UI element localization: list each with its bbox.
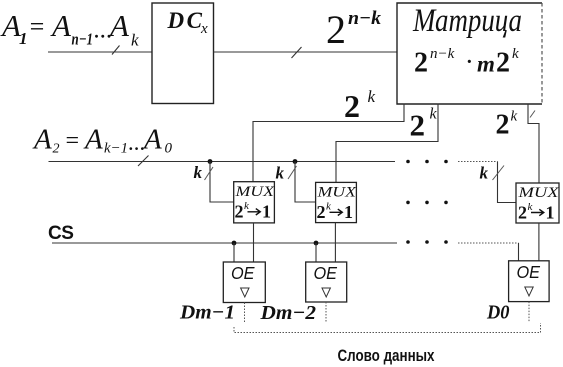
bus width label 2^(n-k) xyxy=(326,7,382,52)
bus slash on MUX3 input xyxy=(530,111,535,118)
svg-text:k: k xyxy=(276,164,285,183)
svg-text:A: A xyxy=(32,124,52,156)
svg-text:x: x xyxy=(200,21,208,37)
label 2^k (third) xyxy=(496,109,518,141)
slash k3 xyxy=(493,166,505,181)
svg-text:2: 2 xyxy=(496,110,510,141)
svg-text:Матрица: Матрица xyxy=(412,3,522,39)
svg-text:OE: OE xyxy=(314,263,338,283)
label 2^k (first) xyxy=(344,87,376,124)
svg-text:1: 1 xyxy=(546,203,555,223)
svg-text:2: 2 xyxy=(410,108,426,143)
svg-text:1: 1 xyxy=(344,202,353,222)
bus slash on A1 wire xyxy=(112,46,120,55)
svg-text:D0: D0 xyxy=(486,302,509,324)
wire 2^k bus Matrix to MUX3 xyxy=(528,104,539,183)
svg-text:CS: CS xyxy=(48,223,73,244)
bus slash on DC-Matrix wire xyxy=(292,47,302,58)
svg-text:OE: OE xyxy=(517,262,541,282)
svg-text:Слово данных: Слово данных xyxy=(338,346,435,365)
svg-text:2: 2 xyxy=(414,48,428,79)
ellipsis dots A2 row xyxy=(406,160,448,164)
svg-text:MUX: MUX xyxy=(517,185,559,201)
svg-text:k: k xyxy=(511,109,518,125)
svg-text:2: 2 xyxy=(235,202,244,222)
buffer OE2 xyxy=(306,262,347,302)
wire select to MUX3 xyxy=(498,162,517,203)
svg-text:k: k xyxy=(368,87,376,106)
wire D0 output dotted xyxy=(528,302,530,322)
svg-text:k−1: k−1 xyxy=(104,141,128,157)
svg-text:A: A xyxy=(50,8,72,43)
svg-text:n−k: n−k xyxy=(430,46,455,62)
svg-text:m: m xyxy=(477,52,495,77)
junction dot CS/OE1 xyxy=(232,241,237,246)
wire CS to OE3 enable xyxy=(518,243,520,261)
wire DC to Matrix xyxy=(214,51,398,53)
wire select to MUX1 xyxy=(210,162,234,203)
wire CS to OE1 enable xyxy=(233,243,235,262)
buffer OE1 xyxy=(223,262,265,303)
wire 2^k bus Matrix to MUX2 xyxy=(336,104,438,183)
svg-text:k: k xyxy=(480,164,489,183)
svg-text:n−1: n−1 xyxy=(72,30,94,49)
svg-text:·: · xyxy=(466,51,473,73)
svg-text:2: 2 xyxy=(53,142,60,157)
buffer OE3 xyxy=(509,261,549,302)
node A2 label xyxy=(32,124,173,157)
wire A2 horizontal xyxy=(49,161,396,163)
svg-text:k: k xyxy=(512,46,519,62)
bus slash on A2 wire xyxy=(138,156,149,167)
wire CS horizontal xyxy=(52,242,397,244)
svg-text:k: k xyxy=(430,106,438,123)
svg-text:=: = xyxy=(64,128,80,154)
junction dot CS/OE2 xyxy=(314,241,319,246)
svg-text:A: A xyxy=(83,124,103,156)
junction dot A2/MUX2 select xyxy=(293,159,298,164)
label 2^k (second) xyxy=(410,106,438,143)
multiplexer MUX1 xyxy=(234,182,275,223)
wire MUX1 output to OE1 xyxy=(253,223,255,262)
svg-text:1: 1 xyxy=(19,29,28,48)
svg-text:0: 0 xyxy=(165,141,173,157)
ellipsis dots select row xyxy=(406,201,448,205)
wire CS dotted continuation xyxy=(458,242,519,244)
multiplexer MUX2 xyxy=(316,182,357,222)
svg-text:=: = xyxy=(28,12,46,41)
svg-text:Dm−1: Dm−1 xyxy=(179,302,235,324)
wire MUX3 output to OE3 xyxy=(538,223,540,261)
svg-text:DC: DC xyxy=(167,8,205,33)
decoder DC box xyxy=(152,3,214,104)
svg-text:1: 1 xyxy=(262,202,271,222)
multiplexer MUX3 xyxy=(516,183,560,223)
wire A2 dotted continuation xyxy=(458,161,498,163)
svg-text:n−k: n−k xyxy=(348,8,382,29)
svg-text:2: 2 xyxy=(344,88,360,124)
slash k2 xyxy=(288,166,297,179)
data word bus dotted xyxy=(234,323,541,333)
svg-text:MUX: MUX xyxy=(234,184,275,200)
wire D(m-2) output dotted xyxy=(325,302,327,322)
node A1 label xyxy=(0,8,139,50)
slash k1 xyxy=(205,167,214,180)
ellipsis dots CS row xyxy=(406,240,448,244)
svg-text:A: A xyxy=(108,8,130,43)
wire MUX2 output to OE2 xyxy=(334,223,336,262)
svg-text:Dm−2: Dm−2 xyxy=(259,302,316,324)
svg-text:2: 2 xyxy=(317,202,326,222)
svg-text:2: 2 xyxy=(518,203,527,223)
wire CS to OE2 enable xyxy=(315,243,317,262)
svg-text:2: 2 xyxy=(496,48,510,79)
Matrix box (right edge dashed) xyxy=(397,3,542,104)
svg-text:MUX: MUX xyxy=(316,185,357,201)
wire select to MUX2 xyxy=(295,162,316,203)
wire 2^k bus Matrix to MUX1 xyxy=(253,104,404,182)
junction dot A2/MUX1 select xyxy=(208,159,213,164)
svg-text:A: A xyxy=(142,124,162,156)
svg-text:k: k xyxy=(194,163,203,182)
wire D(m-1) output dotted xyxy=(244,303,246,323)
svg-text:OE: OE xyxy=(231,263,255,283)
svg-text:2: 2 xyxy=(326,7,346,52)
svg-text:k: k xyxy=(131,31,139,50)
wire A1 to DC xyxy=(48,51,152,53)
